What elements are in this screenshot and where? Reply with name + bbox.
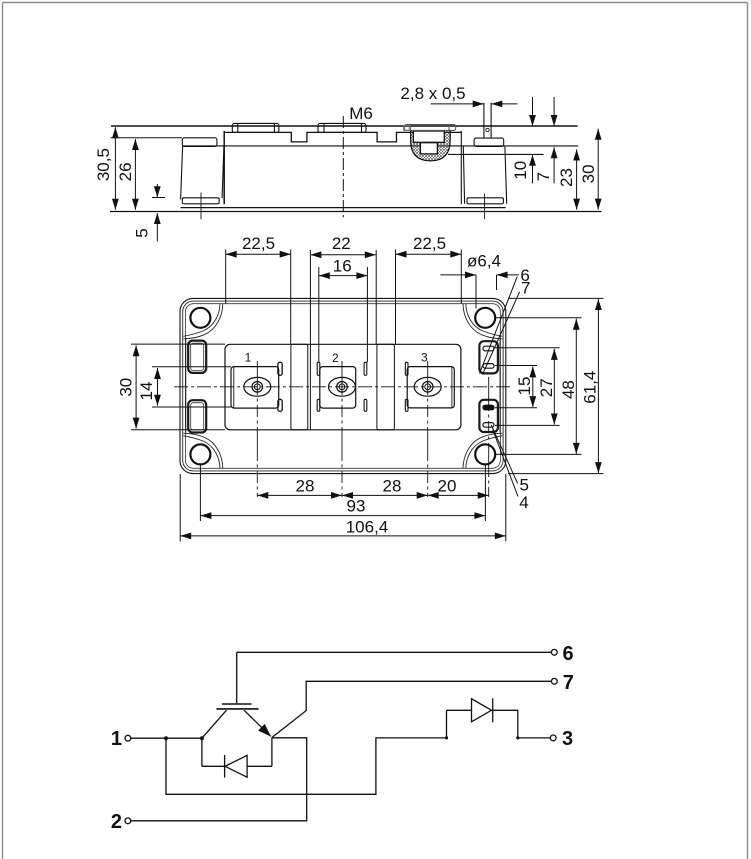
diode D2 wire right: [493, 710, 551, 738]
diode D2 triangle: [472, 699, 492, 722]
svg-text:7: 7: [563, 672, 574, 694]
junction node: [164, 736, 168, 740]
svg-text:2,8 x 0,5: 2,8 x 0,5: [400, 84, 465, 103]
freewheel diode D1 wire left: [201, 738, 203, 766]
igbt Q1 body bar: [217, 708, 259, 710]
wire terminal1 to collector node: [131, 737, 202, 739]
svg-text:5: 5: [133, 228, 152, 237]
module outer outline: [180, 298, 506, 473]
svg-text:61,4: 61,4: [581, 371, 600, 404]
right dim 61,4: [597, 299, 599, 473]
terminal pad 2 (side view): [318, 123, 366, 132]
terminal 7: [551, 678, 557, 684]
terminal 3 screw: [414, 377, 441, 396]
svg-text:28: 28: [383, 476, 402, 495]
wire emitter node down: [271, 738, 273, 767]
horizontal centerline: [174, 386, 511, 388]
svg-text:6: 6: [563, 643, 574, 665]
svg-text:M6: M6: [349, 104, 373, 123]
left dim 14: [157, 368, 159, 406]
dim 23 line: [576, 150, 578, 210]
left foot pad: [182, 198, 219, 204]
junction dot at diode D2 anode corner: [445, 736, 448, 739]
dim 2,8x0,5 left arrow: [431, 103, 484, 105]
igbt Q1 collector stroke: [202, 710, 227, 738]
diode D2 wire left: [447, 709, 472, 711]
extension lines down into module: [225, 250, 227, 304]
side pocket walls: [185, 339, 187, 433]
left extension lines: [131, 343, 225, 345]
svg-text:4: 4: [519, 493, 528, 512]
terminal 3 pad: [405, 362, 454, 411]
barrier 1: [291, 344, 308, 430]
svg-text:27: 27: [537, 378, 556, 397]
dim 30 line: [597, 129, 599, 210]
corner mounting holes: [190, 308, 495, 465]
svg-text:15: 15: [515, 377, 534, 396]
svg-text:14: 14: [137, 382, 156, 401]
right dim 48: [575, 319, 577, 454]
svg-text:30: 30: [117, 378, 136, 397]
body left edge: [223, 131, 225, 204]
dim 26 top extension: [111, 137, 183, 139]
left foot screw centerline: [200, 193, 202, 220]
right aux slots: [479, 341, 498, 432]
svg-text:7: 7: [534, 172, 553, 181]
right dim 27: [553, 349, 555, 425]
corner pockets: [183, 304, 502, 469]
svg-text:106,4: 106,4: [346, 518, 389, 537]
diode D2 cathode bar: [492, 698, 494, 722]
left foot cap: [182, 138, 217, 147]
right foot screw centerline: [484, 193, 486, 219]
terminal 6: [551, 649, 557, 655]
aux contact 5 (filled): [483, 405, 494, 410]
left aux slots: [188, 341, 206, 433]
M6 screw centerline: [342, 116, 344, 217]
dim 22,5 left: [226, 253, 291, 255]
right foot sides: [463, 146, 506, 203]
top plane extension line: [111, 125, 578, 127]
right foot pad: [467, 198, 503, 204]
terminal 2 screw: [329, 377, 356, 396]
dim 93: [200, 515, 485, 517]
dim 30,5 line: [114, 127, 116, 210]
leader lines 5 and 4: [491, 425, 517, 484]
dim 5 top arrow (down): [156, 184, 158, 197]
dim 22: [310, 254, 375, 256]
svg-text:5: 5: [520, 476, 529, 495]
terminal 1: [125, 735, 131, 741]
terminal vertical centerlines: [257, 361, 488, 497]
svg-text:3: 3: [562, 728, 573, 750]
igbt Q1 gate bar: [222, 703, 252, 705]
aux contacts 6,7 (upper right slot): [483, 346, 494, 427]
body top edge with notches: [224, 132, 461, 142]
svg-text:2: 2: [111, 811, 122, 833]
connector top pad: [404, 125, 455, 131]
freewheel diode D1 cathode bar: [224, 755, 226, 778]
terminal 2 pad: [317, 362, 367, 411]
svg-text:30,5: 30,5: [94, 148, 113, 181]
body right edge: [460, 131, 462, 204]
terminal 1 pad: [231, 362, 282, 411]
dim 16: [319, 275, 368, 277]
freewheel diode D1 wire right: [247, 765, 272, 767]
terminal pad 1 (side view): [232, 123, 279, 132]
up arrow 10: [532, 155, 534, 184]
bottom dimensions 28/28/20/93/106,4: [180, 465, 506, 541]
lid face rectangle: [225, 344, 461, 430]
module third outline: [185, 304, 500, 469]
svg-text:1: 1: [111, 728, 122, 750]
dim 5 bottom arrow (up): [156, 213, 158, 241]
wire emitter to terminal 2: [131, 738, 307, 821]
igbt Q1 emitter stroke with arrow: [244, 710, 271, 736]
aux contact 4: [483, 423, 494, 428]
module second outline: [183, 301, 503, 471]
igbt Q1 gate lead: [236, 652, 238, 703]
left foot sides: [181, 146, 224, 199]
dim 28 (T2-T3): [342, 494, 428, 496]
svg-text:22,5: 22,5: [242, 234, 275, 253]
bottom wire from node to diode D2: [166, 738, 447, 794]
svg-text:7: 7: [521, 279, 530, 298]
svg-text:1: 1: [245, 351, 252, 365]
left dim 30: [135, 345, 137, 428]
dim 26 line: [134, 139, 136, 210]
baseplate bottom line: [110, 211, 602, 213]
svg-text:22: 22: [332, 234, 351, 253]
body bottom line: [181, 207, 506, 209]
junction dot at diode D2 cathode corner: [516, 736, 519, 739]
dim 28 (T1-T2): [257, 494, 342, 496]
down arrow for 7: [553, 97, 555, 126]
dim 5 top extension: [152, 197, 165, 199]
svg-text:23: 23: [557, 168, 576, 187]
up arrow 7: [553, 147, 555, 183]
terminal 2: [125, 818, 131, 824]
barrier 2: [377, 344, 395, 430]
right foot cap: [474, 138, 504, 146]
dim 106,4: [180, 535, 506, 537]
svg-text:ø6,4: ø6,4: [467, 252, 501, 271]
svg-text:93: 93: [347, 496, 366, 515]
svg-text:16: 16: [333, 256, 352, 275]
down arrow for 10: [532, 97, 534, 126]
svg-text:26: 26: [116, 162, 135, 181]
leader lines 6 and 7: [480, 277, 518, 374]
svg-text:2: 2: [332, 351, 339, 365]
svg-text:22,5: 22,5: [413, 234, 446, 253]
svg-text:10: 10: [511, 161, 530, 180]
svg-text:48: 48: [559, 380, 578, 399]
diode D2 anode riser: [446, 710, 448, 738]
junction collector node: [200, 736, 204, 740]
freewheel diode D1 triangle: [225, 755, 247, 777]
terminal 1 screw: [244, 377, 271, 396]
connector ledge line (10mm reference): [448, 153, 544, 155]
dim 22,5 right: [396, 253, 462, 255]
dim 2,8x0,5 right arrow: [491, 103, 517, 105]
terminal 3: [550, 735, 556, 741]
fast-on pin 2,8x0,5: [484, 103, 491, 138]
dim 20: [428, 494, 489, 496]
dia 6,4 arrows: [441, 274, 476, 276]
lid seam line: [182, 145, 578, 147]
svg-text:20: 20: [438, 476, 457, 495]
svg-text:28: 28: [296, 476, 315, 495]
right extension lines: [495, 347, 560, 349]
extension lines: [199, 465, 201, 521]
svg-text:30: 30: [579, 164, 598, 183]
right dim 15: [532, 366, 534, 407]
aux connector bell (hatched): [404, 125, 456, 161]
wire gate to terminal 6: [237, 651, 552, 653]
wire emitter to terminal 7: [272, 681, 552, 737]
svg-text:3: 3: [421, 351, 428, 365]
